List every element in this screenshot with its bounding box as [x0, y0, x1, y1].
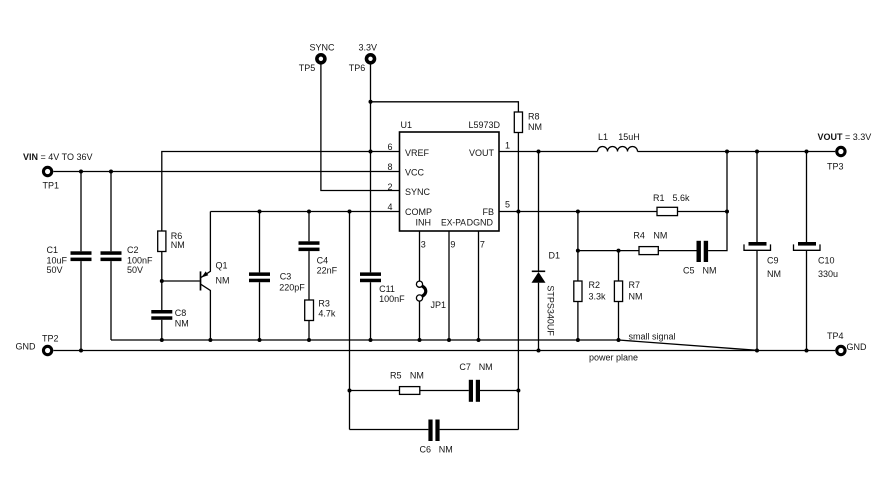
svg-text:NM: NM — [479, 362, 493, 372]
svg-text:VREF: VREF — [405, 148, 430, 158]
svg-text:TP5: TP5 — [299, 63, 316, 73]
junction TP6 R8 branch — [369, 100, 373, 104]
svg-text:COMP: COMP — [405, 207, 432, 217]
test point TP5 — [315, 53, 327, 65]
capacitor C10 — [794, 152, 821, 351]
junction base node — [160, 279, 164, 283]
junction rail JP1 — [418, 338, 422, 342]
wire JP1 to gnd rail — [419, 301, 421, 340]
svg-text:3.3V: 3.3V — [359, 42, 378, 52]
svg-text:10uF: 10uF — [47, 256, 68, 266]
svg-text:TP4: TP4 — [827, 331, 844, 341]
test point TP1 — [42, 166, 53, 177]
wire EX-PAD pin to gnd rail — [448, 231, 450, 340]
capacitor C3 — [249, 212, 270, 341]
wire VREF net to R6 — [162, 152, 400, 232]
wire R5 C7 row — [350, 390, 519, 392]
svg-text:NM: NM — [653, 231, 667, 241]
wire base node to C8 — [161, 281, 163, 310]
svg-text:100nF: 100nF — [379, 294, 405, 304]
svg-text:VOUT = 3.3V: VOUT = 3.3V — [818, 132, 872, 142]
inductor L1 — [598, 147, 638, 152]
svg-text:L5973D: L5973D — [468, 120, 500, 130]
svg-text:9: 9 — [450, 240, 455, 250]
wire vertical VOUT to C5 — [708, 152, 727, 251]
svg-text:TP1: TP1 — [43, 181, 60, 191]
junction rail Q1 — [208, 338, 212, 342]
svg-text:C1: C1 — [47, 245, 59, 255]
svg-text:C6: C6 — [420, 445, 432, 455]
wire VIN rail TP1 to VCC pin 8 — [53, 171, 399, 173]
svg-text:R1: R1 — [653, 193, 665, 203]
junction rail R3 — [307, 338, 311, 342]
junction power C9 — [755, 349, 759, 353]
svg-text:6: 6 — [387, 142, 392, 152]
svg-text:FB: FB — [482, 207, 494, 217]
svg-text:NM: NM — [171, 240, 185, 250]
wire R4 left to R2 vertical — [578, 250, 639, 252]
svg-text:JP1: JP1 — [431, 300, 447, 310]
junction COMP down-lead — [348, 210, 352, 214]
svg-text:D1: D1 — [549, 250, 561, 260]
wire R3 to gnd rail — [308, 321, 310, 341]
capacitor C2 — [101, 172, 122, 341]
svg-text:L1: L1 — [598, 132, 608, 142]
svg-text:C4: C4 — [317, 256, 329, 266]
junction VIN C1 — [79, 170, 83, 174]
resistor R7 — [614, 251, 622, 340]
diode D1 — [532, 152, 546, 351]
wire TP6 vertical to C11 — [370, 64, 372, 272]
junction power C1 — [79, 349, 83, 353]
svg-text:4.7k: 4.7k — [318, 308, 336, 318]
svg-text:GND: GND — [847, 342, 868, 352]
junction bottom right C7 — [516, 389, 520, 393]
resistor R4 — [639, 247, 658, 255]
wire R8 to FB and down to C7 section — [517, 133, 519, 430]
wire base node to Q1 base — [162, 280, 200, 282]
svg-text:330u: 330u — [818, 269, 838, 279]
test point TP6 — [365, 53, 377, 65]
svg-text:power plane: power plane — [589, 352, 638, 362]
junction R8 FB — [516, 210, 520, 214]
wire FB line — [499, 211, 657, 213]
svg-text:50V: 50V — [47, 265, 63, 275]
capacitor C7 — [469, 380, 480, 402]
wire power plane rail — [53, 350, 835, 352]
svg-text:U1: U1 — [401, 120, 413, 130]
svg-text:C8: C8 — [175, 308, 187, 318]
svg-text:C9: C9 — [767, 256, 779, 266]
capacitor C8 — [151, 310, 172, 340]
svg-text:R8: R8 — [528, 112, 540, 122]
svg-text:NM: NM — [410, 370, 424, 380]
junction rail EX-PAD — [447, 338, 451, 342]
wire small signal ground rail — [111, 339, 619, 341]
junction VIN C2 — [109, 170, 113, 174]
svg-text:TP6: TP6 — [349, 63, 366, 73]
wire INH pin to JP1 — [419, 231, 421, 281]
resistor R2 — [574, 212, 582, 341]
svg-text:R4: R4 — [633, 231, 645, 241]
svg-text:C7: C7 — [459, 362, 471, 372]
svg-text:TP2: TP2 — [42, 333, 59, 343]
wire TP5 to SYNC pin 2 — [321, 64, 400, 190]
svg-text:R5: R5 — [390, 370, 402, 380]
svg-text:NM: NM — [175, 319, 189, 329]
svg-text:NM: NM — [216, 275, 230, 285]
wire COMP line — [210, 211, 399, 213]
wire diagonal small signal to power plane — [619, 340, 758, 350]
svg-text:NM: NM — [528, 122, 542, 132]
svg-text:100nF: 100nF — [127, 256, 153, 266]
svg-text:R3: R3 — [318, 299, 330, 309]
junction VOUT C10 — [805, 150, 809, 154]
junction power C10 — [805, 349, 809, 353]
capacitor C5 — [658, 241, 708, 262]
capacitor C11 — [360, 272, 381, 340]
svg-text:VIN = 4V TO 36V: VIN = 4V TO 36V — [23, 152, 92, 162]
svg-text:8: 8 — [387, 162, 392, 172]
svg-text:15uH: 15uH — [618, 132, 640, 142]
junction VOUT R1-vertical — [725, 150, 729, 154]
wire R1 to vertical — [678, 211, 728, 213]
junction R4 R7 — [617, 249, 621, 253]
junction rail R7 — [617, 338, 621, 342]
svg-text:GND: GND — [16, 341, 37, 351]
svg-text:DGND: DGND — [467, 218, 494, 228]
wire COMP down-lead to bottom network — [349, 212, 351, 430]
svg-text:C10: C10 — [818, 256, 835, 266]
IC U1 box — [400, 132, 500, 231]
capacitor C6 — [428, 420, 439, 442]
capacitor C9 — [744, 152, 771, 351]
svg-text:3.3k: 3.3k — [589, 292, 607, 302]
resistor R1 — [657, 207, 678, 215]
svg-text:50V: 50V — [127, 265, 143, 275]
svg-text:220pF: 220pF — [279, 283, 305, 293]
junction rail DGND — [477, 338, 481, 342]
junction rail C11 — [369, 338, 373, 342]
svg-text:C3: C3 — [280, 272, 292, 282]
svg-text:VCC: VCC — [405, 168, 425, 178]
jumper JP1 — [416, 281, 425, 301]
wire C6 row — [350, 429, 519, 431]
svg-text:22nF: 22nF — [317, 266, 338, 276]
junction rail R2 — [576, 338, 580, 342]
svg-text:Q1: Q1 — [216, 260, 228, 270]
svg-text:NM: NM — [703, 266, 717, 276]
svg-text:STPS340UF: STPS340UF — [546, 285, 556, 336]
junction rail C3 — [258, 338, 262, 342]
junction R1 vertical — [725, 210, 729, 214]
capacitor C4 — [299, 212, 320, 301]
resistor R5 — [400, 387, 420, 395]
junction FB R2 — [576, 210, 580, 214]
svg-text:VOUT: VOUT — [469, 148, 495, 158]
wire VOUT rail pin1 to TP3 — [499, 151, 835, 153]
svg-text:small signal: small signal — [629, 331, 676, 341]
junction VOUT C9 — [755, 150, 759, 154]
svg-text:5.6k: 5.6k — [673, 193, 691, 203]
junction R4 R2 — [576, 249, 580, 253]
svg-text:4: 4 — [387, 202, 392, 212]
resistor R3 — [305, 300, 314, 321]
wire R6 to base node — [161, 252, 163, 282]
test point TP2 — [42, 345, 53, 356]
transistor Q1 — [201, 212, 211, 341]
svg-text:TP3: TP3 — [827, 161, 844, 171]
svg-text:INH: INH — [416, 218, 432, 228]
junction rail C8 — [160, 338, 164, 342]
svg-text:C11: C11 — [379, 284, 395, 294]
test point TP3 — [835, 146, 846, 157]
svg-text:7: 7 — [480, 240, 485, 250]
resistor R6 — [158, 231, 166, 252]
svg-text:R2: R2 — [589, 280, 601, 290]
svg-text:C2: C2 — [127, 245, 139, 255]
wire R8 branch — [371, 102, 519, 112]
svg-text:SYNC: SYNC — [310, 42, 336, 52]
svg-text:NM: NM — [629, 292, 643, 302]
svg-text:C5: C5 — [683, 266, 695, 276]
test point TP4 — [835, 345, 846, 356]
svg-text:NM: NM — [439, 445, 453, 455]
junction COMP C4 — [307, 210, 311, 214]
svg-text:1: 1 — [505, 141, 510, 151]
svg-text:2: 2 — [387, 182, 392, 192]
capacitor C1 — [71, 172, 92, 351]
wire DGND pin to gnd rail — [478, 231, 480, 340]
junction bottom left R5 — [348, 389, 352, 393]
junction VOUT D1 — [537, 150, 541, 154]
junction COMP C3 — [258, 210, 262, 214]
svg-text:SYNC: SYNC — [405, 187, 431, 197]
svg-text:NM: NM — [767, 269, 781, 279]
resistor R8 — [514, 112, 522, 133]
svg-text:R7: R7 — [629, 280, 641, 290]
junction power D1 — [537, 349, 541, 353]
svg-text:5: 5 — [505, 200, 510, 210]
svg-text:3: 3 — [421, 240, 426, 250]
svg-text:EX-PA: EX-PA — [441, 218, 466, 228]
junction TP6 VREF — [369, 150, 373, 154]
